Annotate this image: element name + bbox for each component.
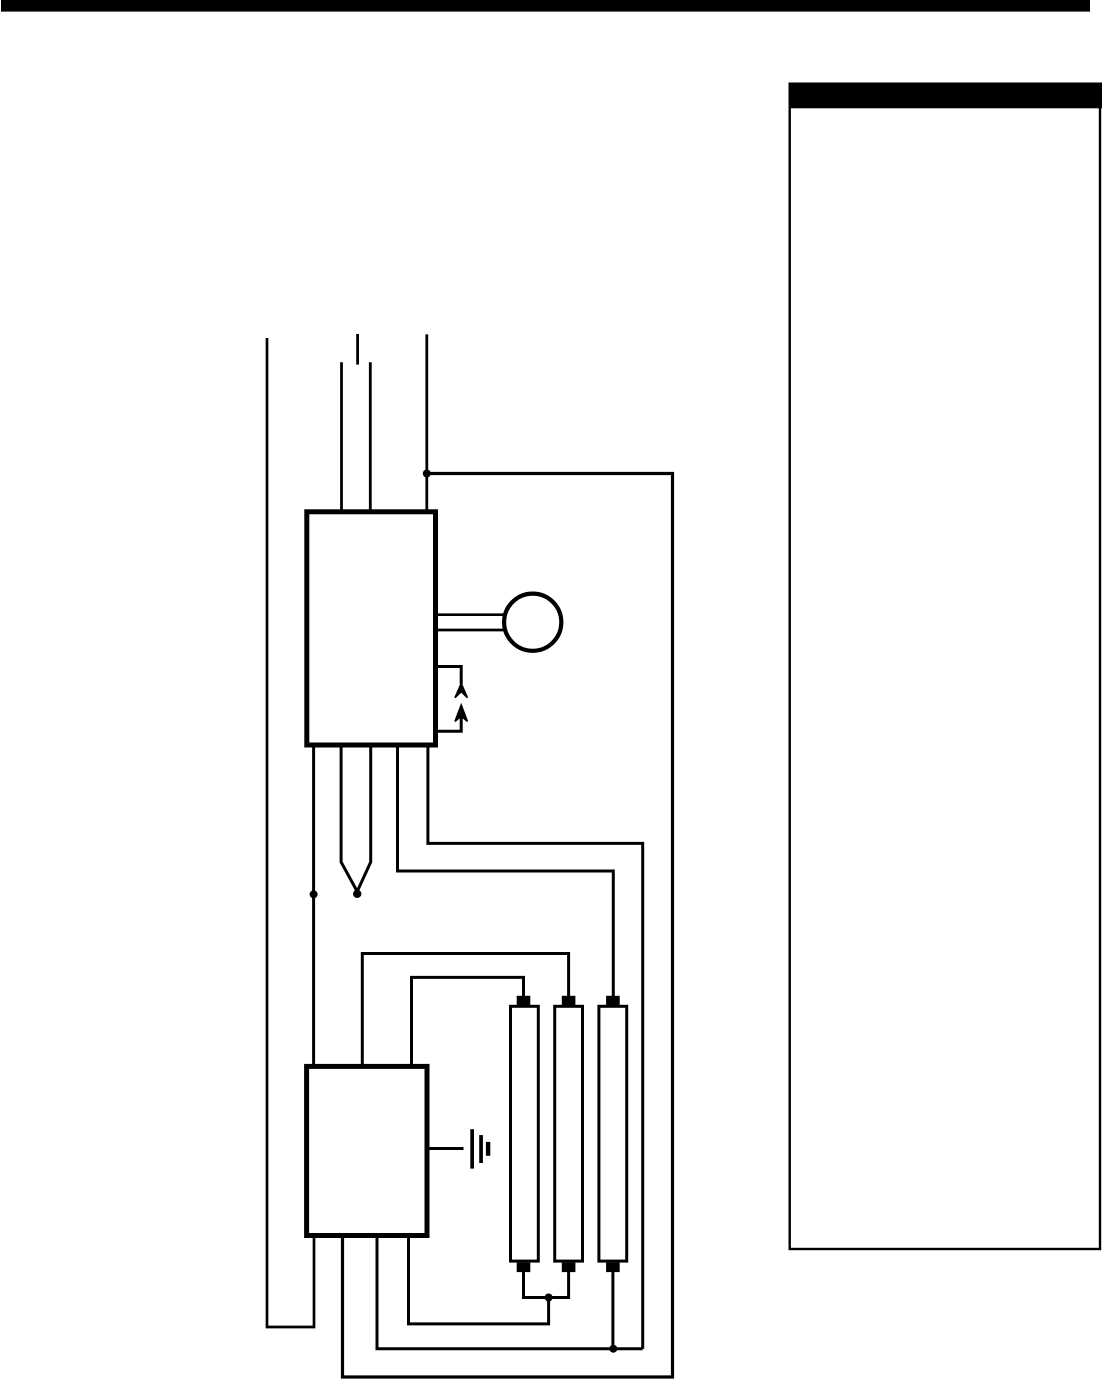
wire: bus from junction right, down and along bottom to control box B pin 2: [343, 474, 673, 1378]
wire: box A pin 5 down, right, down to bottom node at tube 3 bus: [428, 745, 643, 1349]
wire: tube 3 bottom down to bus: [611, 1271, 614, 1349]
spark gap: lower arrow head: [455, 705, 467, 721]
burner tube 2 body: [555, 1006, 583, 1261]
wire: box B top pin 3 up, right, down to burner tube 1 top: [412, 977, 524, 1066]
node: junction on box A pin 1 wire: [310, 890, 318, 898]
wire: tube 1 bottom to common node: [524, 1271, 549, 1298]
burner tube 3 top cap: [606, 996, 620, 1006]
spark gap: upper lead from box A: [434, 667, 461, 685]
motor M: [504, 594, 561, 651]
burner tube 1 body: [511, 1006, 539, 1261]
igniter electrode (V-shaped) from box A pins 2 and 3: [341, 745, 371, 892]
wire: tube 2 bottom to common node: [549, 1271, 569, 1298]
wire: common node down, left to control box B bottom pin 4: [409, 1236, 549, 1324]
control box A (power unit): [307, 512, 436, 745]
wire: box B bottom pin 3 down and right to tube 3 bus: [377, 1236, 643, 1349]
wire: box B top pin 2 up, right, down to burner tube 2 top: [362, 954, 568, 1067]
wire: box A pin 4 down, right, down to burner tube 3 top: [398, 745, 614, 997]
burner tube 2 top cap: [562, 996, 576, 1006]
wire: AC line left loop into control box B bottom pin 1: [267, 338, 314, 1327]
spark gap: lower lead from box A: [434, 716, 461, 731]
node: junction on AC line right: [423, 470, 431, 478]
spark gap: upper arrowhead: [455, 684, 467, 698]
wire: plug blade right to control box A: [369, 362, 372, 513]
burner tube 2 bottom cap: [562, 1263, 576, 1273]
motor M leads (two parallel wires): [434, 615, 505, 630]
chassis ground symbol (three bars): [470, 1129, 490, 1168]
node: tubes 1-2 common junction: [545, 1294, 553, 1302]
burner tube 3 body: [599, 1006, 627, 1261]
burner tube 1 bottom cap: [517, 1263, 531, 1273]
burner tube 1 top cap: [517, 996, 531, 1006]
wire: box B right side to chassis ground: [425, 1147, 464, 1150]
control box B (control PCB): [307, 1066, 427, 1235]
node: electrode tip dot: [353, 890, 361, 898]
wire: box A pin 1 down to control box B top pin 1: [312, 745, 315, 1066]
wire: plug center pin (short stub): [356, 334, 359, 365]
node: tube 3 junction on bus: [609, 1345, 617, 1353]
burner tube 3 bottom cap: [606, 1263, 620, 1273]
wire: plug blade left to control box A: [340, 362, 343, 513]
wire: AC line right into control box A top: [425, 334, 428, 513]
